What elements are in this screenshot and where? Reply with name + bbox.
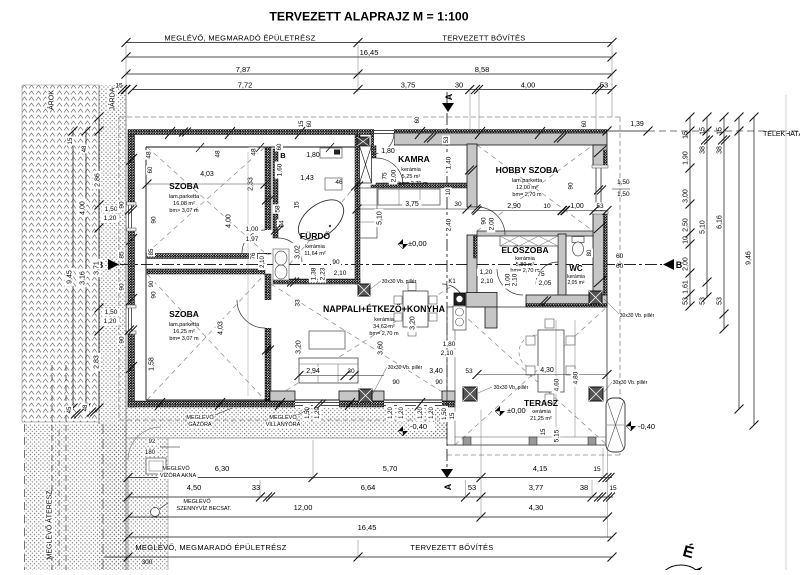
svg-text:1,38: 1,38 — [310, 267, 317, 280]
svg-text:48: 48 — [83, 404, 89, 411]
svg-text:53: 53 — [699, 297, 706, 305]
svg-text:TELEKHATÁR: TELEKHATÁR — [763, 129, 800, 138]
svg-text:4,30: 4,30 — [540, 367, 554, 374]
svg-text:90: 90 — [149, 280, 155, 287]
svg-text:4,15: 4,15 — [533, 464, 548, 473]
svg-text:60: 60 — [582, 120, 588, 127]
svg-text:3,75: 3,75 — [401, 81, 416, 90]
svg-text:TERVEZETT BŐVÍTÉS: TERVEZETT BŐVÍTÉS — [442, 34, 525, 43]
svg-text:lam.parketta: lam.parketta — [169, 322, 200, 328]
svg-text:1,50: 1,50 — [105, 309, 118, 316]
svg-text:1,80: 1,80 — [306, 152, 320, 159]
svg-text:8,58: 8,58 — [475, 65, 490, 74]
svg-text:NAPPALI+ÉTKEZŐ+KONYHA: NAPPALI+ÉTKEZŐ+KONYHA — [323, 303, 446, 314]
svg-text:2,00: 2,00 — [682, 257, 689, 271]
svg-text:11,64 m²: 11,64 m² — [304, 251, 325, 257]
svg-text:kerámia: kerámia — [374, 317, 395, 323]
svg-text:2,50: 2,50 — [682, 218, 689, 232]
svg-text:34,62 m²: 34,62 m² — [373, 324, 395, 330]
svg-text:75: 75 — [381, 172, 388, 180]
svg-text:2,94: 2,94 — [306, 368, 320, 375]
svg-text:16,08 m²: 16,08 m² — [173, 201, 195, 207]
svg-text:bm= 2,70 m: bm= 2,70 m — [398, 181, 428, 187]
svg-text:90: 90 — [435, 379, 443, 386]
svg-text:16,45: 16,45 — [360, 48, 379, 57]
svg-text:1,40: 1,40 — [445, 156, 452, 169]
svg-text:TERVEZETT ALAPRAJZ M = 1:100: TERVEZETT ALAPRAJZ M = 1:100 — [269, 10, 468, 24]
svg-text:15: 15 — [68, 137, 74, 144]
svg-text:3,77: 3,77 — [529, 483, 544, 492]
svg-text:3,20: 3,20 — [409, 316, 416, 330]
svg-text:4,60: 4,60 — [553, 378, 560, 391]
svg-text:1,60: 1,60 — [276, 163, 283, 176]
svg-text:MEGLÉVŐ: MEGLÉVŐ — [269, 414, 297, 421]
svg-text:53: 53 — [716, 297, 723, 305]
svg-text:MEGLÉVŐ, MEGMARADÓ ÉPÜLETRÉSZ: MEGLÉVŐ, MEGMARADÓ ÉPÜLETRÉSZ — [164, 34, 315, 43]
svg-text:1,00: 1,00 — [246, 226, 259, 233]
svg-text:2,05: 2,05 — [539, 280, 552, 287]
svg-text:90: 90 — [567, 182, 574, 190]
svg-text:3,60: 3,60 — [377, 341, 384, 355]
svg-text:48: 48 — [145, 151, 152, 159]
svg-text:2,10: 2,10 — [481, 278, 494, 285]
svg-text:-0,40: -0,40 — [638, 422, 655, 431]
svg-text:TERVEZETT BŐVÍTÉS: TERVEZETT BŐVÍTÉS — [410, 543, 493, 552]
svg-text:48: 48 — [82, 145, 88, 152]
svg-text:90: 90 — [150, 216, 157, 224]
svg-text:3,20: 3,20 — [295, 340, 302, 354]
svg-text:1,50: 1,50 — [617, 191, 630, 198]
svg-text:30: 30 — [454, 201, 462, 208]
svg-text:ELŐSZOBA: ELŐSZOBA — [501, 244, 548, 255]
svg-text:B: B — [280, 151, 286, 160]
svg-text:VÍZÓRA AKNA: VÍZÓRA AKNA — [160, 472, 197, 479]
svg-text:15: 15 — [716, 127, 723, 135]
svg-text:1,58: 1,58 — [148, 357, 155, 371]
svg-text:30x30 Vb. pillér: 30x30 Vb. pillér — [613, 380, 648, 386]
svg-text:3,00: 3,00 — [682, 189, 689, 203]
svg-text:5,10: 5,10 — [699, 220, 706, 234]
svg-text:SZENNYVÍZ BECSAT.: SZENNYVÍZ BECSAT. — [177, 505, 232, 512]
svg-text:4,00: 4,00 — [79, 201, 86, 215]
svg-text:1,61: 1,61 — [682, 280, 689, 294]
svg-text:1,80: 1,80 — [381, 148, 395, 155]
svg-text:1,50: 1,50 — [617, 179, 630, 186]
svg-text:MEGLÉVŐ: MEGLÉVŐ — [186, 414, 214, 421]
svg-text:kerámia: kerámia — [531, 409, 552, 415]
svg-text:16,25 m²: 16,25 m² — [173, 329, 195, 335]
svg-text:SZOBA: SZOBA — [169, 309, 199, 319]
svg-text:K1: K1 — [448, 279, 456, 285]
svg-text:90: 90 — [332, 259, 340, 266]
svg-text:1,20: 1,20 — [399, 407, 405, 419]
svg-text:6,16: 6,16 — [716, 215, 723, 229]
svg-text:4,03: 4,03 — [200, 171, 214, 178]
svg-text:3,02: 3,02 — [294, 245, 301, 259]
svg-text:15: 15 — [699, 127, 706, 135]
svg-text:1,20: 1,20 — [480, 269, 493, 276]
svg-text:1,50: 1,50 — [305, 407, 311, 419]
svg-text:bm= 3,07 m: bm= 3,07 m — [169, 336, 199, 342]
svg-text:bm= 2,70 m: bm= 2,70 m — [369, 331, 399, 337]
svg-text:JÁRDA: JÁRDA — [107, 87, 116, 110]
svg-text:75: 75 — [537, 271, 545, 278]
svg-text:33: 33 — [252, 483, 260, 492]
svg-text:4,03: 4,03 — [217, 321, 224, 335]
svg-text:9,46: 9,46 — [745, 251, 752, 265]
svg-text:60: 60 — [307, 120, 313, 127]
svg-text:3,40: 3,40 — [429, 368, 443, 375]
svg-text:53: 53 — [468, 483, 476, 492]
svg-text:15: 15 — [593, 466, 601, 473]
svg-text:4,30: 4,30 — [529, 503, 544, 512]
svg-text:MEGLÉVŐ, MEGMARADÓ ÉPÜLETRÉSZ: MEGLÉVŐ, MEGMARADÓ ÉPÜLETRÉSZ — [135, 543, 286, 552]
svg-text:1,43: 1,43 — [300, 175, 314, 182]
svg-text:30x30 Vb. pillér: 30x30 Vb. pillér — [620, 313, 655, 319]
svg-text:15: 15 — [609, 485, 617, 492]
svg-text:2,83: 2,83 — [93, 355, 100, 369]
svg-text:12,00: 12,00 — [294, 503, 313, 512]
svg-text:12,00 m²: 12,00 m² — [516, 185, 538, 191]
svg-text:53: 53 — [682, 297, 689, 305]
svg-text:30x30 Vb. pillér: 30x30 Vb. pillér — [382, 279, 417, 285]
svg-text:10: 10 — [682, 236, 689, 244]
svg-text:MEGLÉVŐ: MEGLÉVŐ — [162, 465, 190, 472]
svg-text:1,20: 1,20 — [418, 407, 424, 419]
svg-text:1,20: 1,20 — [315, 407, 321, 419]
svg-text:±0,00: ±0,00 — [507, 406, 526, 415]
svg-text:1,00: 1,00 — [570, 203, 584, 210]
svg-text:3,16: 3,16 — [79, 271, 86, 285]
svg-text:kerámia: kerámia — [305, 244, 326, 250]
svg-text:2,10: 2,10 — [334, 270, 347, 277]
svg-text:GÁZÓRA: GÁZÓRA — [188, 421, 212, 428]
svg-text:4,00: 4,00 — [521, 81, 536, 90]
svg-text:45: 45 — [67, 406, 73, 413]
svg-text:±0,00: ±0,00 — [408, 239, 427, 248]
svg-text:180: 180 — [145, 450, 156, 456]
svg-text:MEGLÉVŐ ÁTERESZ: MEGLÉVŐ ÁTERESZ — [44, 490, 53, 560]
svg-text:2,90: 2,90 — [507, 203, 521, 210]
svg-text:FÜRDŐ: FÜRDŐ — [300, 230, 331, 241]
svg-text:1,50: 1,50 — [442, 408, 448, 420]
svg-text:60: 60 — [415, 116, 421, 123]
svg-text:2,10: 2,10 — [260, 256, 266, 268]
svg-text:85: 85 — [149, 248, 155, 255]
svg-text:38: 38 — [699, 146, 706, 154]
svg-text:90: 90 — [392, 379, 400, 386]
svg-text:85: 85 — [118, 251, 125, 259]
svg-text:60: 60 — [148, 166, 154, 173]
svg-text:60: 60 — [277, 143, 283, 150]
svg-text:4,00: 4,00 — [225, 214, 232, 228]
svg-text:bm= 2,70 m: bm= 2,70 m — [512, 192, 542, 198]
svg-text:38: 38 — [716, 146, 723, 154]
svg-text:2,10: 2,10 — [441, 350, 454, 357]
svg-text:2,10: 2,10 — [511, 273, 518, 286]
svg-text:A: A — [443, 483, 453, 490]
svg-text:HOBBY SZOBA: HOBBY SZOBA — [496, 165, 559, 175]
svg-text:1,20: 1,20 — [104, 215, 117, 222]
svg-text:2,00: 2,00 — [488, 217, 495, 230]
svg-text:2,05 m²: 2,05 m² — [568, 280, 585, 286]
svg-text:5,10: 5,10 — [376, 211, 383, 225]
svg-text:15: 15 — [682, 131, 689, 139]
svg-text:16,45: 16,45 — [358, 523, 377, 532]
svg-text:kerámia: kerámia — [401, 167, 422, 173]
svg-text:76: 76 — [251, 252, 257, 259]
svg-text:53: 53 — [444, 136, 450, 143]
svg-text:1,20: 1,20 — [429, 407, 435, 419]
svg-text:bm> 3,07 m: bm> 3,07 m — [169, 208, 199, 214]
svg-text:2,86: 2,86 — [94, 173, 101, 187]
svg-text:30x30 Vb. pillér: 30x30 Vb. pillér — [494, 385, 529, 391]
svg-text:A: A — [444, 93, 454, 100]
svg-text:SZOBA: SZOBA — [169, 181, 199, 191]
svg-text:9,45: 9,45 — [66, 270, 73, 284]
svg-text:1,20: 1,20 — [104, 318, 117, 325]
svg-text:KAMRA: KAMRA — [398, 154, 430, 164]
svg-text:2,40: 2,40 — [445, 218, 452, 231]
svg-text:ÁROK: ÁROK — [46, 90, 55, 110]
svg-text:-0,40: -0,40 — [410, 422, 427, 431]
svg-text:48: 48 — [214, 150, 221, 158]
svg-text:33: 33 — [294, 299, 301, 307]
svg-text:2,00: 2,00 — [390, 169, 397, 182]
svg-text:21,25 m²: 21,25 m² — [530, 416, 552, 422]
svg-text:1,80: 1,80 — [443, 341, 456, 348]
svg-text:10: 10 — [543, 203, 551, 210]
svg-text:90: 90 — [118, 283, 125, 291]
svg-text:VILLANYÓRA: VILLANYÓRA — [266, 421, 301, 428]
svg-text:lam.parketta: lam.parketta — [169, 194, 200, 200]
svg-text:92: 92 — [149, 439, 156, 445]
svg-text:15: 15 — [450, 412, 456, 419]
svg-text:1,20: 1,20 — [388, 407, 394, 419]
svg-text:53: 53 — [465, 368, 473, 375]
svg-text:300: 300 — [142, 559, 153, 566]
svg-text:lam.parketta: lam.parketta — [512, 178, 543, 184]
svg-text:MEGLÉVŐ: MEGLÉVŐ — [183, 498, 211, 505]
svg-text:80: 80 — [587, 249, 593, 256]
svg-text:WC: WC — [569, 264, 583, 273]
svg-text:90: 90 — [118, 201, 125, 209]
svg-text:58: 58 — [274, 205, 281, 213]
svg-text:30: 30 — [455, 81, 463, 90]
svg-text:7,87: 7,87 — [236, 65, 251, 74]
svg-text:30x30 Vb. pillér: 30x30 Vb. pillér — [388, 365, 423, 371]
svg-text:4,50: 4,50 — [187, 483, 202, 492]
svg-text:15: 15 — [115, 83, 123, 90]
svg-text:3,71: 3,71 — [93, 261, 100, 275]
svg-text:3,75: 3,75 — [405, 201, 419, 208]
svg-text:60: 60 — [616, 263, 624, 270]
svg-text:90: 90 — [480, 217, 487, 225]
svg-text:15: 15 — [299, 120, 305, 127]
svg-text:2,23: 2,23 — [319, 267, 326, 280]
svg-text:15: 15 — [293, 201, 300, 209]
svg-text:5,25 m²: 5,25 m² — [402, 174, 421, 180]
svg-text:90: 90 — [118, 336, 125, 344]
svg-text:6,30: 6,30 — [215, 464, 230, 473]
svg-text:90: 90 — [150, 291, 157, 299]
svg-text:10: 10 — [446, 188, 452, 195]
svg-text:1,39: 1,39 — [630, 121, 644, 128]
svg-text:1,90: 1,90 — [682, 151, 689, 165]
svg-text:15: 15 — [541, 428, 547, 435]
svg-text:60: 60 — [616, 253, 624, 260]
svg-text:1,97: 1,97 — [246, 236, 259, 243]
svg-text:5,15: 5,15 — [553, 429, 560, 442]
svg-text:5,70: 5,70 — [383, 464, 398, 473]
svg-text:38: 38 — [580, 483, 588, 492]
svg-text:4,80: 4,80 — [572, 371, 579, 384]
svg-text:7,72: 7,72 — [238, 81, 253, 90]
svg-text:6,64: 6,64 — [361, 483, 376, 492]
svg-text:1,50: 1,50 — [105, 206, 118, 213]
